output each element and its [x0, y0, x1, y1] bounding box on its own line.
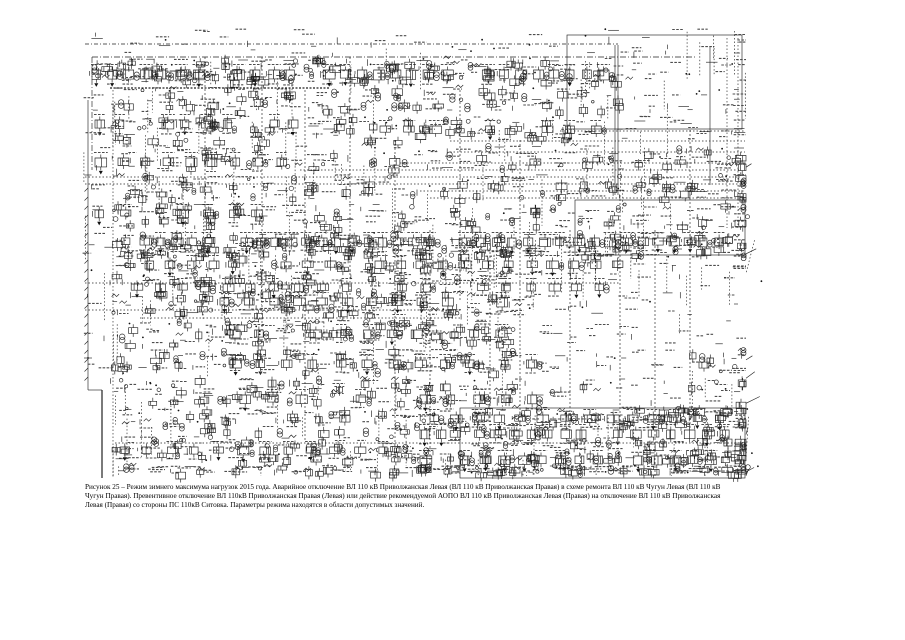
- rail y191: [420, 190, 745, 192]
- wire cluster r5c6: [165, 146, 196, 175]
- bus D x350: [349, 57, 351, 300]
- feeder row T10 unit 2: [474, 425, 490, 441]
- wire cluster r10c4: [112, 292, 143, 315]
- feeder row T5 unit 6: [325, 258, 341, 271]
- wire cluster r13c16: [439, 381, 469, 407]
- feeder row T5 unit 15: [546, 256, 564, 277]
- wire cluster r8c27: [734, 240, 756, 274]
- feeder row T4 unit 33: [697, 233, 712, 251]
- wire cluster r5c26: [716, 148, 741, 168]
- wire cluster r15c13: [357, 438, 389, 471]
- feeder row T1 unit 19: [481, 65, 495, 85]
- wire cluster r1c5: [156, 37, 170, 46]
- bus E x395: [394, 140, 396, 443]
- wire cluster r11c8: [221, 318, 248, 344]
- wire cluster r11c24: [665, 331, 689, 343]
- feeder row T4 unit 3: [186, 233, 197, 251]
- wire cluster r7c25: [687, 209, 713, 230]
- feeder row T10 unit 9: [612, 425, 623, 446]
- wire cluster r11c14: [386, 317, 412, 348]
- wire cluster r7c9: [250, 207, 276, 230]
- feeder row T1 unit 23: [548, 65, 564, 84]
- wire cluster r16c4: [119, 463, 139, 476]
- wire cluster r12c6: [167, 349, 197, 371]
- feeder row T2b unit 0: [379, 121, 392, 136]
- wire cluster r4c14: [385, 117, 412, 149]
- wire cluster r15c5: [138, 437, 167, 461]
- wire cluster r7c21: [578, 210, 599, 229]
- wire cluster r13c18: [494, 379, 522, 406]
- feeder row T12 unit 8: [305, 442, 321, 461]
- wire cluster r12c19: [532, 362, 549, 371]
- feeder row T10 unit 3: [489, 425, 502, 443]
- bus N x705 dotted low: [704, 408, 706, 478]
- frame top-right: [567, 35, 742, 129]
- feeder row T6 unit 5: [342, 295, 353, 314]
- feeder row T9b unit 0: [429, 410, 444, 427]
- wire cluster r16c16: [442, 465, 467, 478]
- wire cluster r8c14: [385, 230, 413, 279]
- wire cluster r4c27: [734, 129, 746, 135]
- wire cluster r9c9: [250, 262, 275, 304]
- feeder row T12 unit 10: [355, 444, 366, 457]
- bus C x305: [304, 90, 306, 440]
- feeder row T3 unit 1: [118, 155, 129, 170]
- feeder row T4 unit 17: [423, 233, 440, 251]
- feeder row T1 unit 7: [232, 65, 246, 85]
- wire cluster r2c23: [632, 63, 657, 78]
- feeder row T5 unit 13: [503, 256, 514, 272]
- feeder row T10 unit 15: [718, 425, 730, 444]
- wire cluster r7c23: [631, 207, 657, 228]
- feeder row T4 unit 16: [407, 233, 420, 251]
- wire cluster r13c6: [168, 381, 187, 449]
- wire cluster r4c4: [111, 120, 135, 147]
- wire cluster r2c22: [604, 59, 633, 91]
- wire cluster r2c13: [357, 59, 390, 88]
- wire cluster r1c7: [195, 30, 210, 31]
- feeder row T4 unit 14: [376, 233, 392, 253]
- feeder row T5b unit 7: [294, 279, 309, 297]
- feeder row T5b unit 0: [131, 281, 143, 298]
- feeder row T8 unit 4: [334, 355, 347, 373]
- feeder row T1 unit 26: [597, 65, 615, 84]
- wire cluster r16c10: [275, 463, 308, 476]
- feeder row T2 unit 5: [222, 115, 232, 134]
- wire cluster r16c11: [304, 464, 336, 480]
- feeder row T4 unit 34: [714, 233, 725, 250]
- feeder row T4 unit 18: [458, 233, 475, 251]
- feeder row T2b unit 5: [563, 121, 576, 142]
- rail y198: [430, 197, 745, 199]
- feeder row T9b unit 10: [645, 410, 664, 430]
- feeder row T10 unit 1: [434, 425, 447, 447]
- bus F x430: [429, 230, 431, 470]
- wire cluster r11c25: [697, 334, 715, 336]
- wire cluster r13c25: [689, 378, 721, 401]
- wire cluster r8c26: [712, 233, 744, 256]
- feeder row T10 unit 6: [542, 425, 554, 444]
- wire cluster r16c6: [170, 466, 195, 482]
- feeder row T1 unit 3: [140, 65, 157, 83]
- feeder row T11 unit 7: [575, 453, 584, 468]
- wire cluster r2c9: [247, 60, 272, 89]
- wire cluster r13c5: [138, 381, 163, 434]
- feeder row T1 unit 8: [249, 65, 261, 87]
- wire cluster r12c15: [412, 350, 445, 371]
- wire cluster r7c10: [282, 205, 306, 257]
- wire cluster r13c4: [111, 378, 138, 424]
- wire cluster r12c23: [632, 350, 664, 365]
- feeder row T9 unit 5: [446, 392, 455, 409]
- wire cluster r1c18: [493, 48, 510, 50]
- rail y131: [560, 130, 745, 132]
- feeder row T12 unit 4: [213, 442, 225, 461]
- feeder row T3b unit 1: [118, 205, 132, 220]
- wire cluster r8c24: [659, 232, 690, 294]
- feeder row T9b unit 4: [512, 412, 530, 425]
- feeder row T10 unit 7: [560, 425, 573, 444]
- wire cluster r3c21: [577, 87, 604, 118]
- wire cluster r11c27: [736, 337, 746, 339]
- feeder row T7 unit 2: [309, 327, 322, 344]
- bus B x262: [261, 57, 263, 330]
- feeder row T3 unit 0: [94, 153, 108, 175]
- feeder row T5 unit 1: [164, 258, 175, 277]
- feeder row T4 unit 5: [240, 233, 257, 255]
- wire cluster r11c3: [84, 333, 104, 341]
- rail y177: [85, 176, 740, 178]
- wire cluster r3c18: [495, 86, 518, 111]
- wire cluster r8c8: [223, 232, 255, 266]
- wire cluster r9c18: [496, 264, 530, 286]
- wire cluster r16c23: [634, 465, 659, 479]
- wire cluster r14c18: [496, 405, 529, 439]
- wire cluster r8c9: [247, 235, 273, 295]
- wire cluster r14c23: [632, 405, 665, 447]
- wire cluster r4c26: [719, 120, 745, 137]
- wire cluster r1c23: [632, 38, 650, 58]
- wire cluster r3c15: [413, 90, 444, 114]
- wire cluster r3c6: [166, 87, 195, 115]
- wire cluster r12c13: [356, 350, 384, 378]
- feeder row T3b unit 0: [93, 207, 104, 226]
- wire cluster r2c7: [192, 58, 219, 86]
- wire cluster r3c7: [194, 88, 222, 119]
- wire cluster r8c25: [686, 231, 717, 259]
- wire cluster r3c24: [667, 95, 689, 156]
- feeder row T1 unit 4: [156, 65, 171, 83]
- wire cluster r5c23: [632, 148, 662, 193]
- feeder row T3 unit 3: [161, 153, 175, 171]
- feeder row T4 unit 24: [553, 233, 565, 249]
- wire cluster r16c25: [687, 465, 711, 476]
- wire cluster r11c15: [419, 317, 443, 349]
- wire cluster r11c11: [303, 320, 332, 342]
- feeder row T5b unit 8: [317, 281, 328, 294]
- wire cluster r16c15: [412, 462, 448, 477]
- wire cluster r2c14: [385, 59, 415, 88]
- wire cluster r16c7: [194, 467, 215, 478]
- wire cluster r6c15: [410, 185, 430, 222]
- wire cluster r1c10: [292, 30, 306, 53]
- wire cluster r11c26: [715, 321, 730, 344]
- wire cluster r16c20: [550, 464, 585, 480]
- wire cluster r8c19: [524, 235, 548, 272]
- feeder row T8 unit 5: [361, 355, 377, 376]
- feeder row T1 unit 2: [123, 65, 140, 85]
- feeder row T11 unit 13: [705, 451, 718, 473]
- wire cluster r6c8: [225, 174, 252, 197]
- feeder row T3b unit 4: [229, 205, 240, 223]
- feeder row T6 unit 8: [416, 293, 427, 313]
- feeder row T8 unit 9: [463, 355, 480, 376]
- wire cluster r1c22: [604, 28, 629, 52]
- wire cluster r4c9: [250, 122, 274, 150]
- feeder row T12 unit 7: [283, 442, 294, 458]
- wire cluster r4c24: [660, 117, 692, 123]
- wire cluster r15c25: [687, 435, 716, 465]
- wire cluster r14c21: [577, 410, 604, 436]
- wire cluster r2c6: [166, 59, 191, 88]
- feeder row T5 unit 16: [568, 256, 585, 274]
- feeder row T5 unit 7: [374, 256, 388, 274]
- feeder row T11 unit 1: [459, 451, 474, 473]
- wire cluster r6c27: [734, 172, 747, 205]
- wire cluster r16c21: [577, 465, 609, 477]
- line x710: [709, 47, 711, 185]
- wire cluster r13c14: [391, 376, 416, 411]
- feeder row T4 unit 0: [139, 235, 157, 251]
- wire cluster r8c10: [275, 234, 301, 274]
- wire cluster r9c25: [687, 265, 719, 306]
- wire cluster r6c13: [357, 178, 390, 197]
- wire cluster r15c16: [440, 440, 472, 476]
- wire cluster r7c5: [139, 200, 170, 227]
- wire cluster r11c10: [276, 320, 306, 348]
- wire cluster r13c13: [360, 376, 391, 406]
- line x738 dotted: [737, 38, 739, 228]
- wire cluster r1c8: [220, 29, 247, 37]
- wire cluster r13c9: [247, 377, 281, 403]
- wire cluster r4c23: [634, 116, 650, 154]
- wire cluster r16c18: [494, 463, 526, 479]
- wire cluster r4c15: [415, 120, 445, 144]
- wire cluster r4c16: [443, 117, 470, 139]
- wire cluster r11c13: [359, 320, 385, 384]
- wire cluster r2c26: [716, 58, 734, 71]
- wire cluster r2c12: [330, 59, 360, 95]
- feeder row T9 unit 8: [525, 392, 542, 409]
- wire cluster r9c24: [660, 263, 680, 279]
- wire cluster r12c27: [732, 348, 755, 379]
- feeder row T9 unit 7: [499, 390, 512, 407]
- wire cluster r3c22: [606, 95, 623, 119]
- wire cluster r9c4: [110, 260, 135, 285]
- boundary dash-dot left: [91, 57, 93, 170]
- wire cluster r10c22: [618, 296, 638, 309]
- wire cluster r13c20: [549, 387, 570, 397]
- wire cluster r4c17: [466, 117, 494, 140]
- wire cluster r5c21: [580, 146, 603, 198]
- wire cluster r2c27: [736, 60, 746, 119]
- wire cluster r7c24: [661, 204, 689, 241]
- feeder row T5 unit 0: [144, 256, 155, 273]
- feeder row T4 unit 12: [347, 235, 362, 254]
- wire cluster r13c7: [194, 375, 216, 408]
- feeder row T3 unit 2: [141, 155, 150, 170]
- wire cluster r6c18: [495, 173, 526, 194]
- wire cluster r12c8: [221, 348, 245, 370]
- feeder row T8 unit 8: [439, 355, 454, 373]
- wire cluster r9c13: [361, 260, 384, 286]
- rail y184: [85, 183, 740, 185]
- feeder row T1 unit 20: [497, 65, 509, 82]
- feeder row T1 unit 22: [534, 67, 549, 83]
- wire cluster r6c17: [467, 177, 498, 203]
- wire cluster r7c19: [522, 205, 540, 264]
- feeder row T2b unit 6: [590, 121, 606, 138]
- wire cluster r14c26: [714, 405, 746, 429]
- feeder row T3b unit 2: [177, 205, 190, 226]
- wire cluster r15c23: [631, 437, 664, 466]
- feeder row T10 unit 5: [526, 425, 541, 444]
- wire cluster r11c23: [632, 327, 638, 339]
- wire cluster r7c3: [85, 206, 112, 260]
- wire cluster r8c22: [605, 231, 631, 270]
- feeder row T12 unit 9: [327, 444, 345, 459]
- bus L x655: [654, 230, 656, 476]
- feeder row T4 unit 23: [539, 233, 552, 252]
- feeder row T8 unit 6: [389, 357, 406, 372]
- wire cluster r6c5: [139, 172, 167, 220]
- feeder row T7 unit 5: [387, 327, 402, 346]
- wire cluster r15c4: [112, 437, 140, 477]
- wire cluster r15c22: [603, 437, 635, 466]
- wire cluster r14c15: [414, 406, 436, 431]
- wire cluster r14c11: [303, 413, 331, 441]
- feeder row T9b unit 9: [625, 410, 639, 426]
- wire cluster r16c27: [733, 464, 759, 477]
- bus A x205: [204, 57, 206, 232]
- wire cluster r4c22: [604, 122, 637, 167]
- feeder row T3 unit 7: [252, 153, 268, 172]
- wire cluster r10c3: [87, 294, 101, 304]
- wire cluster r9c6: [168, 260, 198, 298]
- feeder row T11 unit 2: [479, 451, 492, 472]
- wire cluster r11c17: [467, 320, 496, 349]
- wire cluster r5c12: [331, 150, 348, 183]
- wire cluster r11c4: [113, 323, 137, 367]
- feeder row T4 unit 15: [392, 233, 404, 251]
- wire cluster r5c5: [141, 146, 169, 201]
- feeder row T5b unit 16: [570, 279, 582, 299]
- wire cluster r6c22: [606, 174, 625, 213]
- rail y141: [450, 140, 745, 142]
- wire cluster r16c19: [522, 466, 543, 477]
- wire cluster r4c20: [552, 116, 574, 146]
- wire cluster r5c3: [84, 148, 110, 184]
- wire cluster r15c6: [169, 436, 193, 459]
- feeder row T1 unit 18: [441, 65, 455, 84]
- feeder row T9b unit 12: [691, 410, 707, 430]
- wire cluster r10c19: [525, 294, 542, 309]
- feeder row T5 unit 8: [396, 256, 407, 274]
- wire cluster r13c19: [525, 381, 544, 416]
- wire cluster r4c6: [167, 120, 193, 150]
- feeder row T4 unit 8: [285, 233, 298, 251]
- feeder row T9 unit 1: [267, 390, 279, 408]
- wire cluster r14c13: [362, 408, 386, 439]
- wire cluster r13c22: [610, 379, 625, 388]
- wire cluster r5c14: [383, 148, 409, 177]
- wire cluster r2c3: [92, 60, 113, 78]
- feeder row T6 unit 3: [293, 293, 307, 310]
- wire cluster r5c15: [414, 150, 443, 170]
- wire cluster r16c8: [224, 465, 249, 478]
- junction mark left: [84, 357, 92, 359]
- feeder row T7 unit 1: [254, 325, 269, 341]
- feeder row T4 unit 4: [202, 233, 213, 255]
- wire cluster r7c16: [445, 205, 470, 230]
- wire cluster r11c6: [168, 319, 194, 351]
- left wire lower thick: [101, 390, 103, 478]
- feeder row T1 unit 21: [515, 67, 527, 85]
- feeder row T5 unit 18: [612, 258, 623, 272]
- wire cluster r7c4: [113, 201, 139, 231]
- wire cluster r6c24: [660, 178, 690, 206]
- feeder row T5 unit 10: [439, 258, 453, 277]
- wire cluster r15c17: [470, 442, 495, 476]
- feeder row T3 unit 8: [276, 153, 288, 170]
- wire cluster r8c18: [494, 233, 512, 289]
- feeder row T6 unit 2: [269, 295, 285, 311]
- feeder row T9b unit 5: [536, 410, 550, 428]
- wire cluster r5c9: [247, 142, 273, 168]
- wire cluster r12c22: [606, 357, 626, 371]
- wire cluster r14c6: [163, 408, 194, 431]
- feeder row T5b unit 9: [340, 279, 352, 295]
- bus M x690: [689, 130, 691, 430]
- feeder row T1 unit 12: [339, 65, 351, 86]
- wire cluster r5c19: [523, 146, 541, 170]
- feeder row T5b unit 14: [526, 279, 537, 297]
- wire cluster r7c20: [549, 202, 576, 226]
- wire cluster r4c12: [331, 114, 357, 138]
- feeder row T12 unit 11: [376, 442, 388, 458]
- feeder row T11 unit 4: [519, 453, 531, 473]
- top dash-dot bus: [85, 43, 618, 45]
- wire cluster r1c21: [585, 35, 595, 53]
- wire cluster r11c21: [586, 325, 609, 336]
- feeder row T2 unit 6: [269, 115, 280, 133]
- rail y88 dark dotted: [110, 87, 330, 89]
- boundary dash-dot top: [92, 56, 697, 58]
- feeder row T5b unit 2: [177, 279, 188, 294]
- feeder row T11 unit 0: [418, 451, 433, 473]
- rail y283: [85, 282, 620, 284]
- feeder row T5b unit 5: [246, 281, 255, 296]
- wire cluster r8c5: [137, 232, 170, 262]
- feeder row T8 unit 10: [524, 355, 542, 374]
- wire cluster r9c27: [733, 266, 763, 282]
- feeder row T3 unit 4: [185, 153, 198, 171]
- wire cluster r11c20: [553, 333, 577, 342]
- wire cluster r16c26: [714, 464, 745, 482]
- wire cluster r1c3: [91, 33, 102, 39]
- wire cluster r13c12: [330, 380, 359, 401]
- feeder row T6 unit 6: [366, 295, 376, 310]
